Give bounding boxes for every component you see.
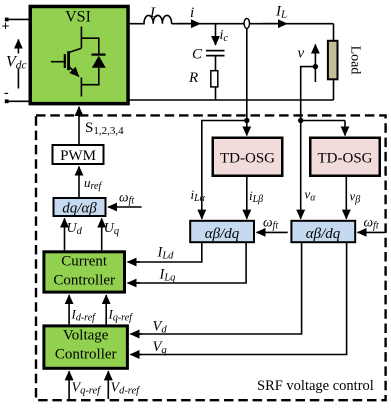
TD-OSG block 2 (310, 138, 380, 176)
svg-text:ILd: ILd (157, 245, 175, 262)
svg-text:Vd: Vd (153, 319, 168, 336)
capacitor C plates (206, 50, 225, 52)
diode D1 cathode bar (92, 53, 106, 55)
voltage arrow v (314, 45, 316, 83)
node: current sense ellipse (244, 18, 249, 28)
transistor Q1 gate lead (51, 61, 64, 63)
current arrow IL (262, 23, 287, 25)
svg-text:Vq: Vq (153, 339, 167, 356)
wire: ILd (135, 242, 202, 262)
label Vdc (5, 54, 27, 69)
omega-ft input to dq/alpha-beta (108, 206, 142, 208)
svg-text:Controller: Controller (55, 347, 117, 363)
wire: Vd (138, 242, 302, 334)
svg-text:TD-OSG: TD-OSG (220, 151, 275, 167)
svg-text:SRF voltage control: SRF voltage control (257, 378, 374, 394)
wire: diode top branch (81, 38, 98, 54)
svg-text:Id-ref: Id-ref (71, 307, 97, 324)
capacitor branch wire with ic arrow (215, 24, 217, 45)
svg-text:iLα: iLα (191, 187, 206, 204)
inductor L (130, 15, 172, 23)
svg-text:i: i (190, 5, 194, 21)
svg-text:Uq: Uq (104, 221, 119, 237)
wire: v sense to TD-OSG2 input (301, 120, 345, 122)
svg-text:Vq-ref: Vq-ref (72, 381, 103, 397)
VSI converter block (30, 6, 128, 103)
omega-ft input to block 2 (358, 231, 386, 233)
svg-text:R: R (188, 70, 198, 86)
wire: top rail (172, 23, 334, 25)
svg-text:Controller: Controller (53, 273, 115, 289)
svg-text:VSI: VSI (65, 9, 91, 26)
svg-text:Load: Load (348, 46, 363, 75)
svg-text:uref: uref (84, 175, 102, 192)
wire: v sense tap (301, 67, 316, 121)
wire: bottom rail (129, 99, 334, 101)
svg-text:C: C (192, 47, 203, 63)
transistor Q1 (IGBT inside VSI): collector lead (80, 27, 82, 49)
terminal square (-) (5, 99, 9, 103)
wire: Vq-ref (68, 371, 70, 399)
junction dot on v arrow (313, 64, 318, 69)
svg-text:PWM: PWM (60, 148, 96, 164)
current arrow i (178, 23, 200, 25)
svg-text:iLβ: iLβ (249, 188, 263, 205)
wire: load to bottom rail (333, 80, 335, 101)
alpha-beta/dq block 1 (190, 221, 254, 242)
svg-text:ωft: ωft (263, 215, 278, 232)
svg-text:ωft: ωft (119, 190, 134, 207)
wire: ILq (135, 242, 246, 283)
load block (328, 41, 338, 80)
svg-text:vα: vα (305, 187, 317, 204)
svg-text:Voltage: Voltage (63, 328, 109, 344)
wire: DC positive lead (8, 18, 30, 20)
dq/alpha-beta block (54, 198, 106, 216)
transistor Q1 emitter diagonal with arrow (69, 66, 79, 76)
svg-text:ic: ic (220, 28, 229, 44)
wire: resistor to bottom rail (215, 87, 217, 100)
wire: v alpha bypass down (300, 121, 302, 219)
svg-text:S1,2,3,4: S1,2,3,4 (85, 120, 124, 137)
svg-text:Ud: Ud (67, 221, 83, 237)
svg-text:αβ/dq: αβ/dq (306, 226, 341, 242)
wire: PWM to VSI gating (78, 107, 80, 144)
resistor R (211, 71, 218, 87)
svg-text:αβ/dq: αβ/dq (205, 226, 240, 242)
transistor Q1 collector diagonal (70, 48, 82, 52)
wire: uref (78, 167, 80, 198)
TD-OSG block 1 (213, 138, 283, 176)
alpha-beta/dq block 2 (291, 221, 355, 242)
svg-text:dq/αβ: dq/αβ (62, 201, 97, 217)
wire: Vd-ref (107, 371, 109, 399)
diode D1 triangle (92, 56, 106, 68)
svg-text:Iq-ref: Iq-ref (108, 307, 134, 324)
wire: i sense from ellipse down (246, 29, 248, 121)
wire: Vq (138, 242, 347, 354)
svg-text:IL: IL (275, 4, 287, 21)
svg-text:Vd-ref: Vd-ref (111, 381, 142, 397)
svg-text:v: v (298, 46, 305, 62)
wire: Iq-ref (105, 295, 107, 324)
voltage controller block (44, 326, 128, 368)
svg-text:+: + (2, 20, 10, 35)
terminal square (+) (5, 18, 9, 22)
PWM block (53, 145, 104, 164)
svg-text:-: - (4, 86, 9, 101)
wire: Ud (64, 218, 66, 250)
wire: i sense to TD-OSG1 input (246, 121, 248, 136)
wire: Uq (101, 218, 103, 250)
transistor Q1 emitter lead (80, 78, 82, 97)
omega-ft input to block 1 (257, 231, 288, 233)
transistor Q1 main bar (67, 51, 70, 70)
transistor Q1 gate bar (64, 54, 66, 68)
wire: DC negative lead (8, 100, 30, 102)
Vdc arrow (17, 40, 19, 89)
SRF voltage control dashed boundary (36, 115, 386, 400)
wire: top rail to load (333, 24, 335, 41)
junction dot v sense (298, 118, 303, 123)
junction dot i sense (244, 118, 249, 123)
wire: TD-OSG2 output vbeta (345, 177, 347, 219)
svg-text:vβ: vβ (350, 189, 361, 206)
svg-text:ωft: ωft (364, 215, 379, 232)
svg-text:ILq: ILq (159, 267, 176, 284)
current controller block (44, 252, 125, 292)
svg-text:L: L (149, 5, 158, 21)
svg-text:TD-OSG: TD-OSG (318, 151, 373, 167)
wire: i alpha bypass (202, 121, 247, 219)
wire: Id-ref (68, 295, 70, 324)
svg-text:Current: Current (61, 254, 108, 270)
wire: TD-OSG1 output iLbeta (246, 177, 248, 219)
wire: capacitor to resistor (215, 56, 217, 71)
wire: diode bottom branch (81, 68, 98, 85)
